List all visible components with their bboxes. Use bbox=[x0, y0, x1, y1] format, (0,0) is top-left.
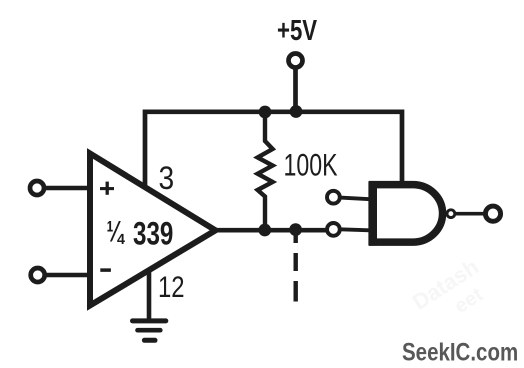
svg-text:¼: ¼ bbox=[107, 216, 126, 249]
svg-text:339: 339 bbox=[133, 216, 173, 252]
svg-text:12: 12 bbox=[158, 271, 185, 304]
svg-text:100K: 100K bbox=[284, 147, 339, 182]
svg-text:+5V: +5V bbox=[277, 15, 318, 46]
svg-text:SeekIC.com: SeekIC.com bbox=[402, 338, 518, 366]
svg-text:3: 3 bbox=[159, 161, 175, 196]
